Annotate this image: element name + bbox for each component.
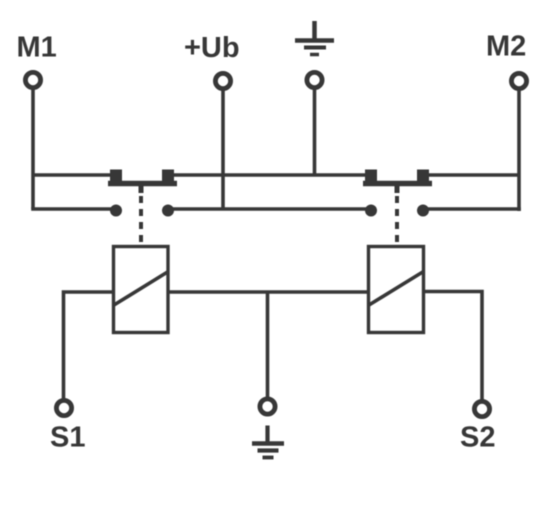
wire M2 vertical xyxy=(517,90,521,212)
relay K2 mechanical link (dashed) xyxy=(395,196,399,246)
relay K1 coil diagonal xyxy=(114,272,168,305)
relay K1 contact: break contact dot right xyxy=(162,205,174,217)
relay K2 contact: actuator stem xyxy=(395,184,400,194)
wire M1 vertical xyxy=(31,89,35,210)
wire lower bus right segment xyxy=(423,207,521,211)
relay K1 contact: fixed square contact right xyxy=(162,170,174,182)
wire middle ground drop xyxy=(266,292,270,399)
wire coil K1 left lead xyxy=(64,292,114,400)
relay K1 coil box xyxy=(114,247,169,333)
wire upper bus left segment xyxy=(33,173,110,177)
wire GND top vertical xyxy=(313,89,317,177)
relay K1 contact: break contact dot left xyxy=(110,205,122,217)
svg-text:M1: M1 xyxy=(17,32,57,64)
relay K2 contact: fixed square contact right xyxy=(417,170,429,182)
terminal M1 xyxy=(25,72,40,87)
wire upper bus middle segment xyxy=(174,173,366,177)
wire lower bus left segment xyxy=(31,207,116,211)
earth ground (bottom) xyxy=(252,426,284,458)
relay K2 coil box xyxy=(369,247,424,333)
relay K2 contact: break contact dot right xyxy=(417,205,429,217)
svg-text:M2: M2 xyxy=(486,31,526,63)
relay K1 contact: movable bridge bar xyxy=(108,181,177,187)
wire lower bus middle segment xyxy=(168,207,371,211)
relay K2 contact: fixed square contact left xyxy=(365,170,377,182)
relay K1 contact: fixed square contact left xyxy=(110,170,122,182)
terminal GND top xyxy=(307,72,322,87)
relay K1 mechanical link (dashed) xyxy=(139,196,143,246)
relay K2 coil diagonal xyxy=(369,272,424,306)
earth ground (top) xyxy=(295,21,334,55)
terminal +Ub xyxy=(215,73,230,88)
terminal GND bottom xyxy=(260,399,275,414)
wire upper bus right segment xyxy=(429,173,519,177)
svg-text:+Ub: +Ub xyxy=(184,32,240,64)
terminal M2 xyxy=(511,73,526,88)
relay K1 contact: actuator stem xyxy=(139,184,144,194)
terminal S2 xyxy=(474,401,489,416)
svg-text:S2: S2 xyxy=(460,422,495,454)
relay K2 contact: break contact dot left xyxy=(365,205,377,217)
relay K2 contact: movable bridge bar xyxy=(363,181,432,187)
terminal S1 xyxy=(56,400,71,415)
wire coil K2 right lead xyxy=(424,292,482,401)
wire coil row middle segment xyxy=(168,290,368,294)
wire +Ub vertical xyxy=(221,90,225,210)
svg-text:S1: S1 xyxy=(50,422,85,454)
